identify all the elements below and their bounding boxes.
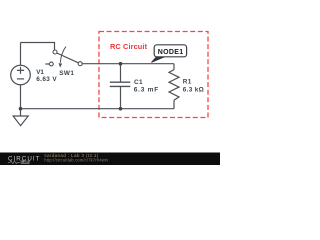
footer bar [0,153,220,166]
wire V1 top to corner [20,43,22,66]
junction node at C1 bottom [119,107,123,111]
svg-text:NODE1: NODE1 [158,49,184,56]
resistor R1 zigzag [169,70,179,101]
capacitor C1 plates [110,82,131,86]
node NODE1 callout tail [151,57,165,63]
svg-text:http://circuitlab.com/c/7k7rh4: http://circuitlab.com/c/7k7rh4wtv [44,157,109,162]
wire top horizontal to switch [21,43,55,51]
svg-text:6.3 kΩ: 6.3 kΩ [183,87,204,94]
svg-text:V1: V1 [36,69,44,76]
red dashed region box "RC Circuit" [99,32,208,118]
svg-text:R1: R1 [183,79,192,86]
svg-text:LAB: LAB [21,160,29,164]
wire V1 bottom rail [20,85,22,109]
svg-text:SW1: SW1 [59,70,74,77]
voltage source V1 [11,65,31,85]
svg-text:C1: C1 [134,79,143,86]
footer logo zigzag [8,161,20,164]
wire bottom horizontal [21,108,175,110]
ground [13,116,28,126]
wire C1 leads [120,64,122,109]
svg-text:6.63 V: 6.63 V [36,76,57,83]
switch SW1 [45,47,82,68]
node NODE1 callout box [154,45,186,57]
wire R1 leads [173,64,175,109]
svg-text:6.3 mF: 6.3 mF [134,87,159,94]
svg-text:RC Circuit: RC Circuit [110,42,148,51]
junction node at switch/C1 top wire [119,62,123,66]
footer logo LAB box [21,160,30,163]
ground stub wire [20,109,22,116]
wire top horizontal from switch to R1 [82,63,174,65]
junction node at V1 bottom / ground [19,107,23,111]
